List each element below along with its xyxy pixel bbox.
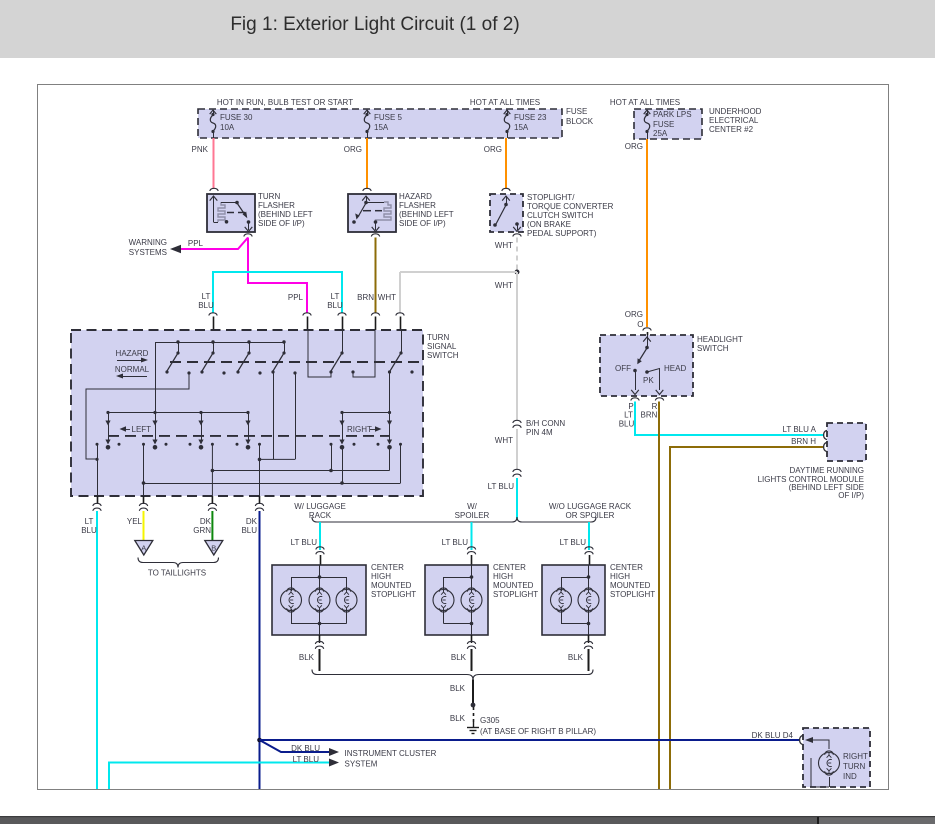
svg-text:W/O LUGGAGE RACK: W/O LUGGAGE RACK [549, 502, 632, 511]
svg-text:STOPLIGHT: STOPLIGHT [610, 590, 655, 599]
svg-text:BLK: BLK [450, 714, 466, 723]
svg-text:GRN: GRN [193, 526, 211, 535]
svg-text:G305: G305 [480, 716, 500, 725]
svg-text:(AT BASE OF RIGHT B PILLAR): (AT BASE OF RIGHT B PILLAR) [480, 727, 596, 736]
svg-text:BLU: BLU [198, 301, 214, 310]
svg-text:LT: LT [202, 292, 211, 301]
svg-text:BLK: BLK [299, 653, 315, 662]
svg-text:HEAD: HEAD [664, 364, 686, 373]
svg-text:BRN H: BRN H [791, 437, 816, 446]
svg-text:TORQUE CONVERTER: TORQUE CONVERTER [527, 202, 614, 211]
svg-text:STOPLIGHT: STOPLIGHT [493, 590, 538, 599]
svg-text:LT: LT [331, 292, 340, 301]
svg-text:Fig 1: Exterior Light Circuit: Fig 1: Exterior Light Circuit (1 of 2) [230, 14, 519, 35]
svg-text:BLK: BLK [568, 653, 584, 662]
svg-text:MOUNTED: MOUNTED [610, 581, 651, 590]
svg-text:INSTRUMENT CLUSTER: INSTRUMENT CLUSTER [345, 749, 437, 758]
svg-text:WHT: WHT [495, 281, 513, 290]
svg-text:SIDE OF I/P): SIDE OF I/P) [399, 219, 446, 228]
svg-text:BLOCK: BLOCK [566, 117, 594, 126]
svg-text:DK: DK [246, 517, 258, 526]
svg-text:CENTER: CENTER [610, 563, 643, 572]
svg-text:DAYTIME RUNNING: DAYTIME RUNNING [789, 466, 864, 475]
svg-text:W/ LUGGAGE: W/ LUGGAGE [294, 502, 346, 511]
svg-text:MOUNTED: MOUNTED [371, 581, 412, 590]
svg-text:PARK LPS: PARK LPS [653, 110, 692, 119]
svg-text:IND: IND [843, 772, 857, 781]
svg-text:SIGNAL: SIGNAL [427, 342, 457, 351]
svg-text:OF I/P): OF I/P) [838, 491, 864, 500]
svg-text:WARNING: WARNING [129, 238, 167, 247]
svg-text:PK: PK [643, 376, 654, 385]
svg-text:10A: 10A [220, 123, 235, 132]
svg-text:LT BLU: LT BLU [488, 482, 515, 491]
svg-text:WHT: WHT [378, 293, 396, 302]
svg-text:RACK: RACK [309, 511, 332, 520]
svg-text:BLK: BLK [451, 653, 467, 662]
svg-text:W/: W/ [467, 502, 478, 511]
svg-text:BRN: BRN [357, 293, 374, 302]
svg-text:HAZARD: HAZARD [399, 192, 432, 201]
svg-text:BLU: BLU [327, 301, 343, 310]
svg-text:LT BLU: LT BLU [293, 755, 320, 764]
svg-text:(BEHIND LEFT: (BEHIND LEFT [399, 210, 454, 219]
svg-text:CLUTCH SWITCH: CLUTCH SWITCH [527, 211, 593, 220]
svg-text:SWITCH: SWITCH [427, 351, 459, 360]
svg-text:PPL: PPL [188, 239, 204, 248]
svg-text:LT BLU A: LT BLU A [783, 425, 817, 434]
svg-text:TURN: TURN [843, 762, 865, 771]
svg-text:SWITCH: SWITCH [697, 344, 729, 353]
svg-text:PEDAL SUPPORT): PEDAL SUPPORT) [527, 229, 597, 238]
svg-text:HOT IN RUN, BULB TEST OR START: HOT IN RUN, BULB TEST OR START [217, 98, 353, 107]
svg-text:STOPLIGHT: STOPLIGHT [371, 590, 416, 599]
svg-text:BLK: BLK [450, 684, 466, 693]
svg-text:B: B [211, 544, 216, 553]
svg-text:LT BLU: LT BLU [291, 538, 318, 547]
svg-text:FUSE 23: FUSE 23 [514, 113, 547, 122]
svg-text:O: O [637, 320, 643, 329]
svg-text:TURN: TURN [427, 333, 449, 342]
svg-text:LEFT: LEFT [132, 425, 152, 434]
svg-text:UNDERHOOD: UNDERHOOD [709, 107, 762, 116]
svg-text:LT: LT [85, 517, 94, 526]
svg-text:15A: 15A [374, 123, 389, 132]
svg-text:(BEHIND LEFT: (BEHIND LEFT [258, 210, 313, 219]
svg-text:CENTER #2: CENTER #2 [709, 125, 754, 134]
svg-text:FUSE 5: FUSE 5 [374, 113, 403, 122]
svg-text:SIDE OF I/P): SIDE OF I/P) [258, 219, 305, 228]
svg-text:FLASHER: FLASHER [258, 201, 295, 210]
svg-text:WHT: WHT [495, 241, 513, 250]
svg-text:HEADLIGHT: HEADLIGHT [697, 335, 743, 344]
svg-text:DK BLU D4: DK BLU D4 [752, 731, 794, 740]
svg-text:RIGHT: RIGHT [843, 752, 868, 761]
svg-text:LT BLU: LT BLU [560, 538, 587, 547]
svg-text:SPOILER: SPOILER [455, 511, 490, 520]
svg-text:HOT AT ALL TIMES: HOT AT ALL TIMES [470, 98, 540, 107]
svg-text:CENTER: CENTER [493, 563, 526, 572]
svg-text:HOT AT ALL TIMES: HOT AT ALL TIMES [610, 98, 680, 107]
svg-text:STOPLIGHT/: STOPLIGHT/ [527, 193, 575, 202]
svg-text:ORG: ORG [625, 310, 643, 319]
svg-text:PPL: PPL [288, 293, 304, 302]
svg-text:LT BLU: LT BLU [442, 538, 469, 547]
svg-text:25A: 25A [653, 129, 668, 138]
svg-text:TO TAILLIGHTS: TO TAILLIGHTS [148, 569, 206, 578]
svg-text:LT: LT [624, 411, 633, 420]
svg-text:OR SPOILER: OR SPOILER [566, 511, 615, 520]
svg-text:YEL: YEL [127, 517, 143, 526]
svg-text:RIGHT: RIGHT [347, 425, 372, 434]
svg-text:MOUNTED: MOUNTED [493, 581, 534, 590]
svg-text:BLU: BLU [619, 420, 635, 429]
svg-text:HIGH: HIGH [610, 572, 630, 581]
svg-text:FUSE: FUSE [653, 120, 674, 129]
svg-text:PIN 4M: PIN 4M [526, 428, 553, 437]
svg-text:HAZARD: HAZARD [116, 349, 149, 358]
svg-text:SYSTEMS: SYSTEMS [129, 248, 167, 257]
svg-text:BLU: BLU [241, 526, 257, 535]
svg-text:BLU: BLU [81, 526, 97, 535]
svg-text:15A: 15A [514, 123, 529, 132]
svg-text:ELECTRICAL: ELECTRICAL [709, 116, 759, 125]
svg-text:(ON BRAKE: (ON BRAKE [527, 220, 571, 229]
svg-text:FLASHER: FLASHER [399, 201, 436, 210]
svg-text:HIGH: HIGH [493, 572, 513, 581]
svg-text:NORMAL: NORMAL [115, 365, 150, 374]
svg-text:DK BLU: DK BLU [291, 744, 320, 753]
svg-text:DK: DK [200, 517, 212, 526]
svg-text:ORG: ORG [484, 145, 502, 154]
svg-text:PNK: PNK [192, 145, 209, 154]
svg-text:SYSTEM: SYSTEM [345, 760, 378, 769]
svg-text:HIGH: HIGH [371, 572, 391, 581]
svg-text:OFF: OFF [615, 364, 631, 373]
svg-text:BRN: BRN [641, 411, 658, 420]
svg-text:A: A [141, 544, 146, 553]
svg-text:ORG: ORG [625, 142, 643, 151]
svg-text:FUSE: FUSE [566, 107, 587, 116]
svg-text:TURN: TURN [258, 192, 280, 201]
svg-text:WHT: WHT [495, 436, 513, 445]
svg-text:ORG: ORG [344, 145, 362, 154]
svg-text:CENTER: CENTER [371, 563, 404, 572]
svg-text:B/H CONN: B/H CONN [526, 419, 565, 428]
svg-text:FUSE 30: FUSE 30 [220, 113, 253, 122]
